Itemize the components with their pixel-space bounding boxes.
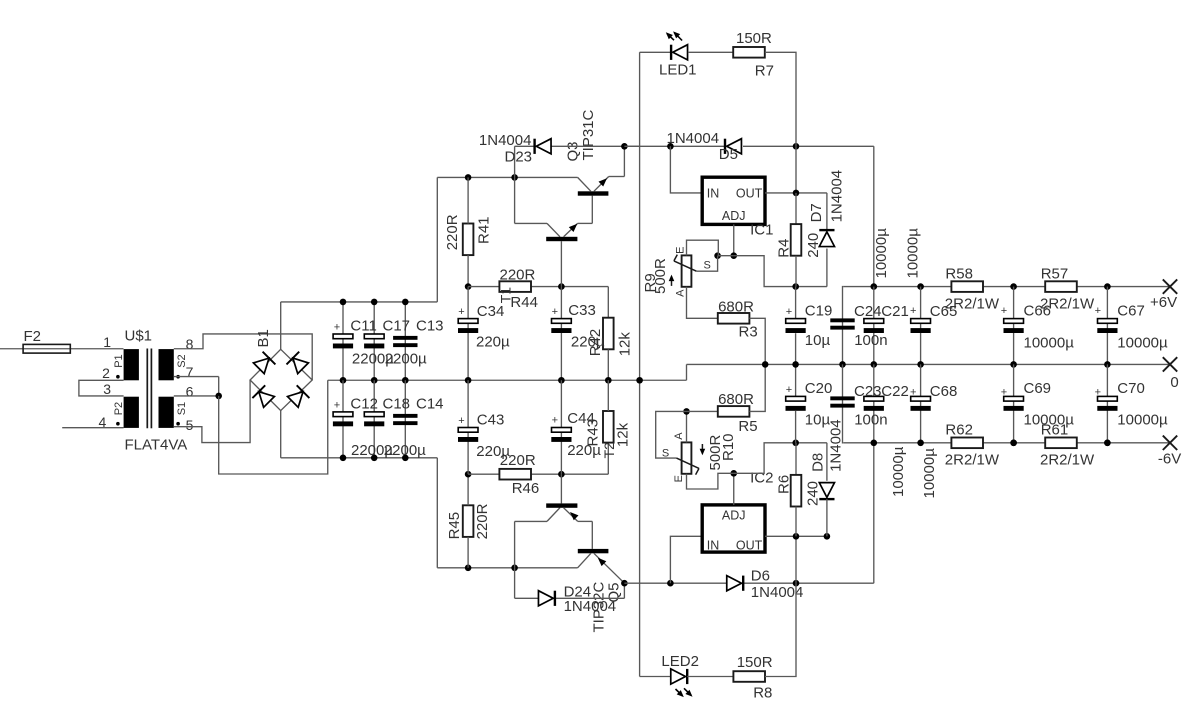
svg-text:C69: C69 (1024, 380, 1052, 397)
resistor R46 (499, 469, 531, 480)
wire D24 drop (514, 568, 516, 599)
wire C33 leads (560, 287, 562, 381)
svg-text:220µ: 220µ (567, 442, 601, 459)
wire R3 to 0V rail (749, 318, 765, 364)
svg-text:P2: P2 (113, 402, 125, 415)
wire bridge - output riser (280, 411, 282, 458)
resistor R5 (718, 406, 750, 417)
wire R45 top lead (467, 474, 469, 505)
svg-text:A: A (673, 432, 685, 440)
wire ADJ2 node to rail jog (734, 443, 827, 474)
svg-text:B1: B1 (255, 329, 272, 347)
wire mid 0V rail left section (328, 379, 687, 381)
wire C67 leads (1106, 287, 1108, 365)
node C65 bottom (917, 361, 924, 368)
node R62 right (1010, 440, 1017, 447)
svg-text:+: + (552, 415, 558, 427)
transformer U$1 secondary winding S1 bar (159, 397, 174, 428)
wire D23 to driver collector drop (514, 177, 516, 223)
svg-text:U$1: U$1 (125, 328, 153, 345)
capacitor C20 (786, 396, 806, 401)
node R4 bottom on adj rail (792, 283, 799, 290)
svg-text:R58: R58 (945, 266, 973, 283)
svg-text:3: 3 (103, 381, 111, 397)
wire bridge + output riser (280, 302, 282, 349)
wire C66 leads (1013, 287, 1015, 365)
svg-text:TIP31C: TIP31C (580, 109, 597, 160)
node C11 top (340, 299, 347, 306)
node C21 top (871, 283, 878, 290)
wire D23 drop (514, 146, 516, 177)
node C17 bottom (371, 377, 378, 384)
svg-text:C11: C11 (350, 318, 376, 335)
wire R46 row (468, 473, 608, 475)
trimmer R10 A path (686, 411, 688, 442)
node C13 bottom (402, 377, 409, 384)
diode D23 (536, 139, 551, 154)
wire R8 to corner and rise (765, 583, 796, 676)
node 0V line on mid rail (636, 377, 643, 384)
node trimmer tie junction (714, 252, 721, 259)
svg-text:A: A (675, 289, 687, 297)
svg-text:10000µ: 10000µ (921, 448, 938, 499)
resistor R58 (951, 281, 983, 292)
resistor R42 (603, 318, 614, 350)
svg-text:+: + (1001, 387, 1007, 399)
diode D5 (727, 139, 742, 154)
wire T2 emitter to Q5 base jog (578, 520, 593, 522)
svg-text:D8: D8 (809, 453, 826, 472)
svg-text:1N4004: 1N4004 (479, 132, 532, 149)
wire C68 leads (920, 364, 922, 442)
wire D8 bottom lead (826, 499, 828, 536)
svg-text:10000µ: 10000µ (873, 228, 890, 279)
svg-text:10000µ: 10000µ (905, 228, 922, 279)
node OUT junction x796 (793, 190, 800, 197)
node OUT2 junction x796 (793, 533, 800, 540)
capacitor C17 (364, 334, 384, 339)
resistor R44 (499, 281, 531, 292)
fuse F2 (23, 344, 70, 353)
node C21 bottom (871, 361, 878, 368)
svg-text:IN: IN (707, 539, 720, 553)
bridge diode lower-right (288, 392, 304, 408)
svg-text:C34: C34 (477, 303, 505, 320)
trimmer R9 E path (687, 240, 719, 256)
svg-text:0: 0 (1170, 374, 1178, 391)
svg-text:240: 240 (805, 481, 822, 506)
svg-text:2200µ: 2200µ (384, 442, 426, 459)
terminal X 0 (1163, 357, 1177, 371)
transistor T1 base lead (560, 241, 562, 286)
wire LED1 line left (640, 51, 672, 53)
capacitor C68 (911, 396, 931, 401)
wire +6V rail (843, 286, 1170, 288)
svg-text:-6V: -6V (1158, 451, 1181, 468)
svg-text:P1: P1 (113, 354, 125, 367)
resistor R8 (733, 671, 765, 682)
capacitor C66 (1004, 319, 1024, 324)
bridge diode lower-left (259, 392, 275, 408)
wire C19 bottom lead (795, 333, 797, 364)
svg-text:ADJ: ADJ (722, 209, 746, 223)
bridge B1 diamond (250, 349, 312, 410)
trimmer R9 body (682, 255, 692, 286)
wire Q3 emitter jog (609, 176, 625, 178)
svg-text:E: E (675, 247, 687, 254)
wire driver2 collector drop (514, 521, 516, 567)
svg-text:D7: D7 (808, 203, 825, 222)
node C11 bottom (340, 377, 347, 384)
svg-text:6: 6 (186, 384, 194, 400)
svg-text:5: 5 (186, 417, 194, 433)
wire R41 top lead (467, 177, 469, 223)
wire ADJ node to rail jog (734, 256, 827, 287)
wire driver1 collector line (515, 222, 547, 224)
led LED2 arrow 1 (676, 689, 683, 696)
wire center tap to 0V mid rail (219, 380, 328, 474)
wire riser x874 to +6V rail (873, 146, 875, 286)
transistor Q3 emitter diagonal (594, 177, 609, 192)
transistor Q5 emitter arrow (598, 558, 607, 566)
svg-text:OUT: OUT (736, 187, 763, 201)
node D23 anode drop (511, 174, 518, 181)
svg-text:C18: C18 (383, 395, 411, 412)
wire pin2-pin3 jumper (79, 380, 124, 396)
wire R6 bottom lead (795, 507, 797, 537)
capacitor C69 (1004, 396, 1024, 401)
wire pin6 stub (174, 395, 219, 397)
wire pin5 to bridge left corner (174, 380, 250, 443)
svg-text:10000µ: 10000µ (1024, 412, 1075, 429)
wire R4 bottom lead (795, 256, 797, 287)
transistor T1 base bar (546, 237, 577, 241)
svg-text:1N4004: 1N4004 (564, 598, 617, 615)
node R44 right / C33 top (558, 283, 565, 290)
svg-text:IC2: IC2 (750, 470, 773, 487)
svg-text:C23: C23 (854, 383, 882, 400)
wire pin7 stub (174, 376, 219, 378)
resistor R61 (1045, 438, 1077, 449)
svg-text:R6: R6 (775, 475, 792, 494)
wire trimmer tie to ADJ (718, 255, 734, 257)
svg-text:OUT: OUT (736, 539, 763, 553)
led LED2 (671, 669, 686, 684)
node R45 bottom (465, 565, 472, 572)
svg-text:R8: R8 (753, 684, 772, 701)
svg-text:R10: R10 (720, 433, 737, 461)
svg-text:C19: C19 (805, 303, 833, 320)
wire C12 leads (342, 380, 344, 458)
svg-text:C33: C33 (568, 302, 596, 319)
node C18 bottom (371, 455, 378, 462)
wire IC2 ADJ lead (733, 473, 735, 505)
node C13 top (402, 299, 409, 306)
wire C17 leads (373, 302, 375, 380)
svg-text:+: + (334, 399, 340, 411)
terminal X +6V (1163, 279, 1177, 293)
resistor R41 (463, 224, 474, 256)
wire top rail (bridge+ to caps) (281, 301, 438, 303)
node R6 top on adj rail (792, 440, 799, 447)
wire IC1 IN drop (670, 146, 702, 193)
wire mid rail step up (686, 364, 688, 380)
wire Q3 emitter riser (623, 146, 625, 176)
node R61 right (1104, 440, 1111, 447)
svg-text:2: 2 (102, 365, 110, 381)
wire IC1 ADJ lead (733, 224, 735, 255)
svg-text:S: S (662, 447, 669, 459)
capacitor C14 (393, 414, 417, 418)
wire R41 bottom lead (467, 255, 469, 287)
node ADJ2 junction (730, 470, 737, 477)
regulator IC2 box (702, 505, 765, 552)
adjust arrow (R9) (671, 277, 673, 286)
svg-text:R4: R4 (776, 239, 793, 258)
wire IC1 OUT line (765, 192, 827, 194)
wire D23 line (515, 145, 639, 147)
svg-text:R3: R3 (739, 324, 758, 341)
node R57 right (1104, 283, 1111, 290)
svg-text:ADJ: ADJ (722, 509, 746, 523)
svg-text:IC1: IC1 (750, 222, 773, 239)
svg-text:150R: 150R (736, 30, 772, 47)
svg-text:D5: D5 (719, 146, 738, 163)
transistor T2 base bar (546, 503, 577, 507)
svg-text:+: + (1001, 305, 1007, 317)
svg-text:C17: C17 (383, 318, 411, 335)
capacitor C33 (552, 319, 572, 324)
svg-text:C24: C24 (854, 303, 882, 320)
wire R43 top lead (607, 380, 609, 411)
transformer U$1 primary winding P1 bar (124, 349, 139, 380)
wire LED1 to R7 (688, 51, 734, 53)
node R44 left (465, 283, 472, 290)
node C70 bottom (1104, 440, 1111, 447)
node D8 junction (824, 533, 831, 540)
svg-text:S: S (704, 259, 711, 271)
svg-text:2200µ: 2200µ (385, 350, 427, 367)
capacitor C34 (458, 319, 478, 324)
node D24 drop (511, 565, 518, 572)
svg-text:150R: 150R (737, 654, 773, 671)
wire R42 top jog (607, 287, 609, 318)
resistor R3 (718, 313, 750, 324)
svg-text:+: + (458, 306, 464, 318)
wire C44 leads (560, 380, 562, 474)
capacitor C21 (864, 319, 884, 324)
wire D24 line (515, 597, 625, 599)
trimmer R10 body (682, 442, 692, 473)
resistor R6 (791, 475, 802, 507)
svg-text:1: 1 (103, 334, 111, 350)
wire D7 bottom lead (826, 249, 828, 287)
svg-text:C43: C43 (477, 412, 505, 429)
capacitor C43 (458, 428, 478, 433)
transistor T2 emitter diagonal (564, 508, 578, 521)
wire R45 bottom lead (467, 537, 469, 568)
svg-text:7: 7 (186, 364, 194, 380)
svg-text:10000µ: 10000µ (1117, 412, 1168, 429)
svg-text:+6V: +6V (1150, 294, 1177, 311)
wire R4 top lead (795, 193, 797, 224)
svg-text:C22: C22 (881, 383, 909, 400)
terminal X -6V (1163, 436, 1177, 450)
svg-text:C68: C68 (930, 383, 958, 400)
svg-text:220R: 220R (474, 503, 491, 539)
transistor Q3 emitter arrow (599, 178, 608, 186)
svg-text:220R: 220R (444, 214, 461, 250)
svg-text:10000µ: 10000µ (1117, 335, 1168, 352)
node R46 right / C44 bottom (558, 471, 565, 478)
transistor T1 emitter diagonal (564, 223, 578, 236)
wire C43 leads (467, 380, 469, 474)
svg-text:10000µ: 10000µ (890, 446, 907, 497)
wire base drive line y177 (437, 176, 577, 178)
polarity dot S1 (176, 422, 180, 426)
trimmer R10 S path (656, 411, 687, 458)
wire pin8 to bridge right corner (174, 334, 312, 380)
capacitor C22 (864, 396, 884, 401)
node C14 bottom (402, 455, 409, 462)
node IC2 IN tap (667, 580, 674, 587)
svg-text:220R: 220R (500, 266, 536, 283)
capacitor C67 (1098, 319, 1118, 324)
svg-text:+: + (334, 322, 340, 334)
svg-text:R57: R57 (1041, 266, 1069, 283)
node R42 bottom (605, 377, 612, 384)
node ADJ junction (730, 252, 737, 259)
diode D6 (727, 576, 742, 591)
svg-text:680R: 680R (718, 391, 754, 408)
svg-text:R45: R45 (446, 512, 463, 540)
transistor Q5 base bar (578, 549, 609, 553)
bridge diode upper-right (293, 358, 309, 374)
wire x796 net1 to OUT (795, 146, 797, 193)
regulator IC1 box (702, 177, 765, 224)
wire C34 leads (467, 287, 469, 381)
capacitor C13 (393, 336, 417, 340)
node R41 top (465, 174, 472, 181)
svg-text:10µ: 10µ (805, 332, 831, 349)
node C34 bottom (465, 377, 472, 384)
svg-text:C44: C44 (567, 410, 595, 427)
svg-text:C12: C12 (350, 395, 378, 412)
wire C19 top lead (795, 287, 797, 319)
svg-text:+: + (1095, 305, 1101, 317)
node 0V R3/R5 tie (762, 361, 769, 368)
wire C13 leads (404, 302, 406, 380)
svg-text:C20: C20 (805, 380, 833, 397)
svg-text:D6: D6 (751, 568, 770, 585)
wire D6 line (624, 582, 873, 584)
svg-text:R46: R46 (512, 480, 540, 497)
resistor R57 (1045, 281, 1077, 292)
wire C69 leads (1013, 364, 1015, 442)
transformer core line 1 (146, 349, 148, 429)
resistor R62 (951, 438, 983, 449)
wire net1 D5 to riser (743, 145, 874, 147)
svg-text:2R2/1W: 2R2/1W (945, 451, 1000, 468)
transistor Q3 base bar (578, 191, 609, 195)
wire C20 top lead (795, 364, 797, 396)
wire driver2 collector line (515, 520, 547, 522)
node C17 top (371, 299, 378, 306)
svg-text:100n: 100n (854, 332, 887, 349)
node Q5 emitter junction (621, 580, 628, 587)
led LED2 arrow 2 (684, 688, 691, 695)
wire C70 leads (1106, 364, 1108, 442)
polarity dot S2 (176, 375, 180, 379)
node C22 bottom (871, 440, 878, 447)
resistor R4 (791, 224, 802, 256)
svg-text:+: + (1095, 387, 1101, 399)
node R46 left (465, 471, 472, 478)
wire bottom rail (bridge- to caps) (281, 457, 438, 459)
svg-text:R44: R44 (510, 294, 538, 311)
svg-text:D23: D23 (505, 149, 533, 166)
svg-text:12k: 12k (616, 332, 633, 357)
node IC1 IN tap (667, 143, 674, 150)
wire R9 A to R3 (687, 287, 718, 319)
svg-text:C13: C13 (416, 318, 444, 335)
svg-text:680R: 680R (718, 298, 754, 315)
transistor T1 driver collector diagonal (547, 223, 560, 236)
svg-text:220µ: 220µ (571, 333, 605, 350)
wire 0V rail right section (687, 363, 1171, 365)
wire R5 left lead (687, 410, 718, 412)
node C12 bottom (340, 455, 347, 462)
svg-text:R41: R41 (475, 216, 492, 244)
svg-text:8: 8 (186, 336, 194, 352)
node C65 top (917, 283, 924, 290)
transistor Q3 collector diagonal (578, 177, 591, 191)
wire -6V rail (843, 442, 1170, 444)
node C33 bottom (558, 377, 565, 384)
svg-text:R62: R62 (945, 421, 973, 438)
wire C11 leads (342, 302, 344, 380)
wire Q5 base lead (591, 521, 593, 549)
trimmer R10 wiper (677, 458, 700, 468)
transistor Q5 collector diagonal (578, 553, 591, 568)
svg-text:2R2/1W: 2R2/1W (1040, 451, 1095, 468)
svg-text:R7: R7 (755, 63, 774, 80)
svg-text:+: + (910, 305, 916, 317)
svg-text:10µ: 10µ (805, 412, 831, 429)
svg-text:+: + (910, 387, 916, 399)
svg-text:500R: 500R (652, 258, 669, 294)
svg-text:R5: R5 (738, 418, 757, 435)
node R58 right (1010, 283, 1017, 290)
node net1 x796 (793, 143, 800, 150)
transformer U$1 secondary winding S2 bar (159, 349, 174, 380)
capacitor C23 (830, 396, 854, 400)
wire IC2 IN rise (670, 536, 702, 583)
wire LED1 long 0V line (639, 52, 641, 676)
led LED1 (673, 45, 688, 60)
svg-text:12k: 12k (615, 422, 632, 447)
svg-text:+: + (458, 415, 464, 427)
capacitor C70 (1098, 396, 1118, 401)
svg-text:+: + (552, 306, 558, 318)
wire riser x874 to -6V rail (873, 443, 875, 583)
svg-text:2R2/1W: 2R2/1W (945, 296, 1000, 313)
wire D7 top lead (826, 193, 828, 231)
resistor R7 (733, 47, 765, 58)
transformer core line 2 (150, 349, 152, 429)
capacitor C11 (333, 334, 353, 339)
transistor T1 emitter arrow (569, 224, 578, 232)
